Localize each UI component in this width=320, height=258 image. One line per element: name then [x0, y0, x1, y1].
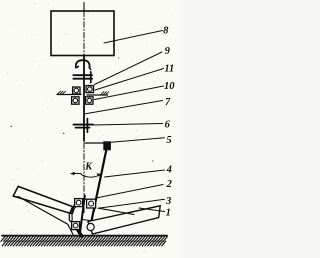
svg-text:10: 10 [164, 81, 175, 92]
svg-text:6: 6 [165, 120, 171, 131]
svg-text:3: 3 [165, 196, 171, 207]
svg-text:1: 1 [166, 207, 171, 218]
svg-text:8: 8 [163, 26, 169, 37]
svg-text:К: К [84, 162, 93, 173]
svg-text:11: 11 [164, 64, 174, 75]
svg-text:5: 5 [166, 135, 171, 146]
svg-text:2: 2 [166, 179, 173, 190]
svg-text:4: 4 [166, 165, 172, 176]
svg-text:7: 7 [165, 97, 171, 108]
svg-text:9: 9 [165, 46, 171, 57]
